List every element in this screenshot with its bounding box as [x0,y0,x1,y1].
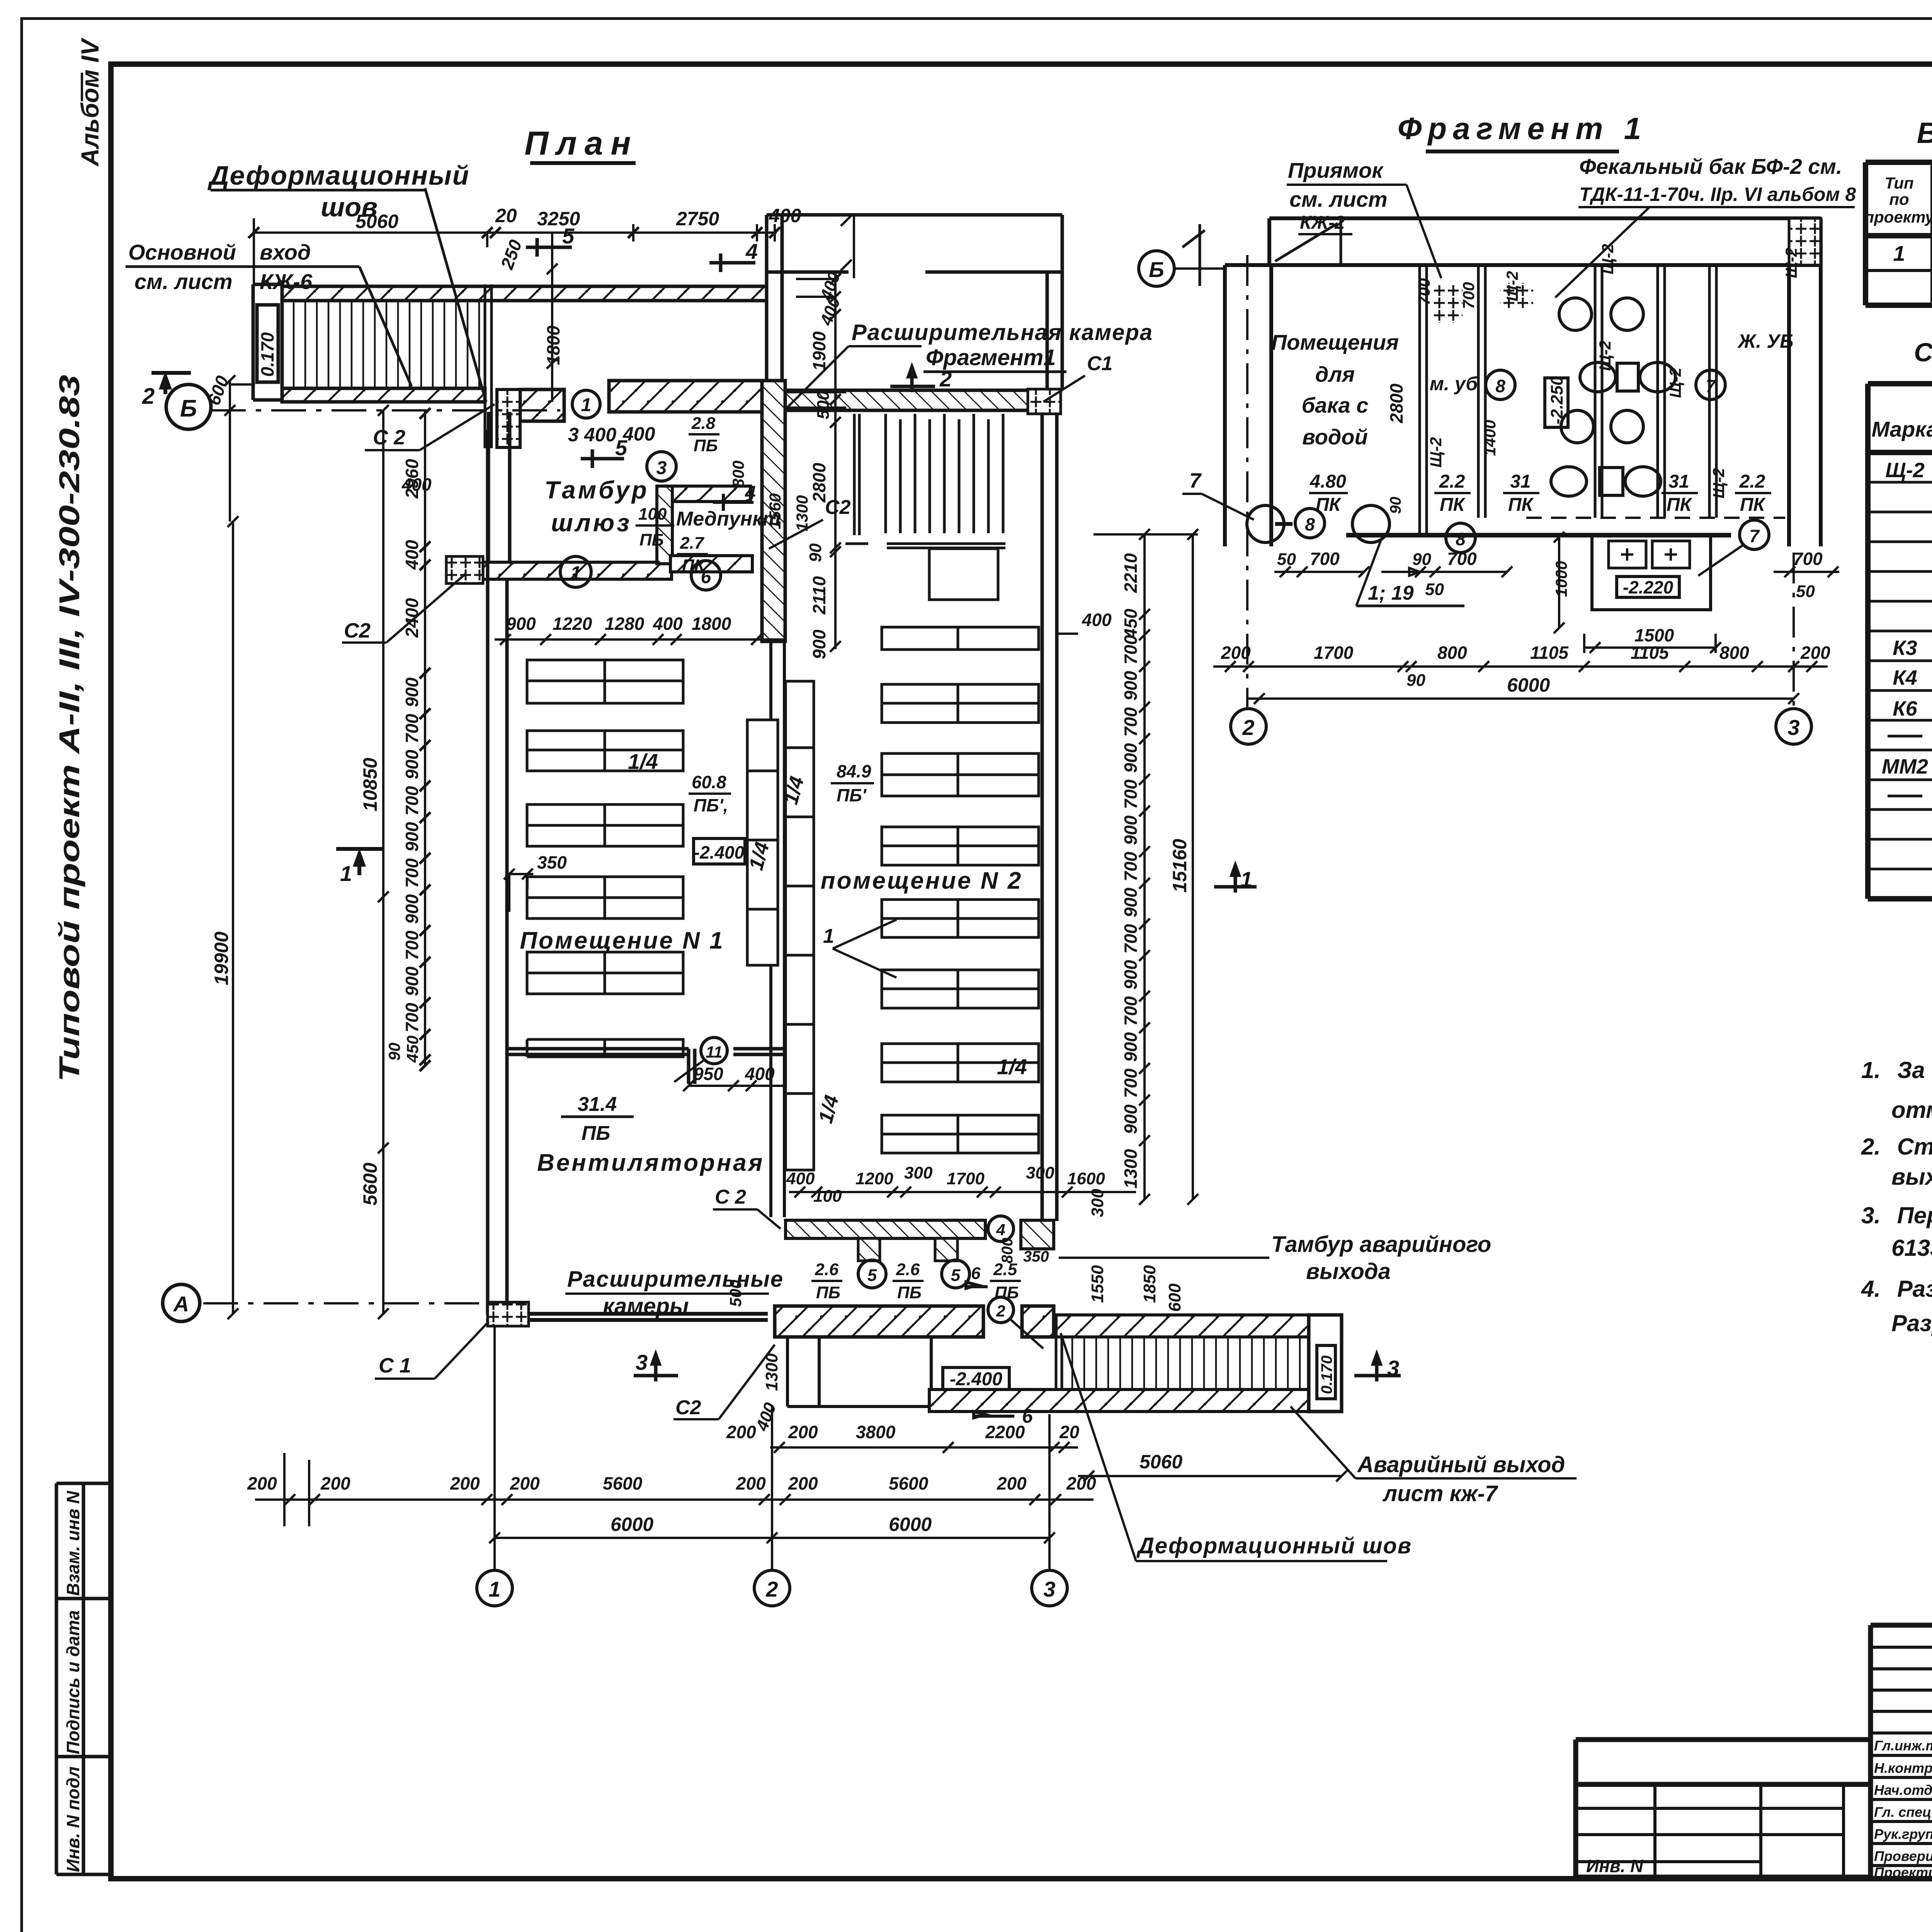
svg-text:7: 7 [1189,469,1202,492]
room2 top-right corner crosshatch C1 [1028,389,1061,414]
svg-text:900: 900 [402,822,422,852]
svg-text:1: 1 [1893,241,1905,265]
expansion chamber strip top [767,215,1062,389]
svg-text:Щ-2: Щ-2 [1503,271,1521,301]
right total chain 15160 [1187,529,1198,1205]
svg-text:Проверил: Проверил [1874,1848,1932,1864]
svg-text:900: 900 [1121,743,1141,773]
svg-text:450: 450 [403,1036,422,1063]
num circle 8 c [1446,523,1475,553]
svg-text:5060: 5060 [355,211,398,232]
svg-text:500: 500 [726,1280,745,1307]
svg-text:300: 300 [904,1163,933,1182]
dim 6 arrow [974,1412,1014,1418]
circle 3 [647,452,676,481]
svg-text:5600: 5600 [359,1163,381,1206]
bottom tambour partition returns [858,1238,880,1261]
svg-text:Альбом IV: Альбом IV [76,37,104,167]
svg-text:90: 90 [1412,550,1431,569]
svg-text:ПБ: ПБ [582,1122,610,1145]
section mark 2 left [151,373,191,394]
svg-text:1. За отм. 0.000 условно п: 1. За отм. 0.000 условно принята планиро… [1861,1057,1932,1083]
svg-text:3: 3 [656,458,667,478]
svg-text:700: 700 [402,1003,422,1032]
svg-text:1/4: 1/4 [628,749,658,774]
section mark 3 bottom [634,1354,678,1381]
svg-text:400: 400 [786,1169,815,1188]
svg-text:400: 400 [745,1064,775,1084]
fragment grid circle 2 [1231,709,1266,744]
svg-text:1550: 1550 [1088,1265,1107,1303]
priyamok notch in band [1275,218,1341,265]
svg-text:60.8: 60.8 [692,772,726,792]
spec table grid [1868,384,1932,899]
svg-text:м. уб: м. уб [1430,373,1478,395]
svg-text:450: 450 [1121,609,1141,639]
svg-text:1/4: 1/4 [997,1054,1027,1079]
PLAN ANNOTATIONS [126,160,1577,1606]
svg-text:ТДК-11-1-70ч. IIр. VI альбом 8: ТДК-11-1-70ч. IIр. VI альбом 8 [1579,184,1856,205]
svg-text:400: 400 [1082,610,1112,630]
svg-text:90: 90 [806,543,825,562]
slope arrow 1:19 [1381,568,1420,576]
LEFT MARGIN [53,37,111,1874]
svg-text:Марка: Марка [1872,417,1932,441]
svg-text:3: 3 [1387,1356,1399,1380]
fixture circle on axis [1247,505,1284,543]
svg-text:А: А [173,1292,189,1316]
svg-text:Разрезы 3-3÷6-6 см. лист А: Разрезы 3-3÷6-6 см. лист АС-6. [1891,1310,1932,1336]
svg-text:900: 900 [809,629,829,659]
grid circle 3 [1032,1570,1067,1606]
svg-text:700: 700 [1121,852,1141,881]
svg-text:5600: 5600 [603,1473,643,1493]
svg-text:800: 800 [1437,643,1467,663]
svg-text:2: 2 [142,384,155,409]
svg-text:1600: 1600 [1067,1169,1105,1188]
svg-text:800: 800 [729,461,747,488]
svg-text:Щ-2: Щ-2 [1885,459,1924,482]
svg-text:Типовой проект А-II, III, IV: Типовой проект А-II, III, IV-300-230.83 [53,375,85,1082]
svg-text:Тамбур аварийного: Тамбур аварийного [1271,1232,1491,1257]
circle 11 [701,1037,727,1064]
svg-text:Щ-2: Щ-2 [1599,244,1617,274]
svg-text:шлюз: шлюз [551,509,632,537]
svg-text:900: 900 [1121,1032,1141,1062]
svg-text:31: 31 [1510,471,1531,492]
fragment axis line 2 [1246,255,1248,709]
section mark 2 top [890,367,935,392]
level -2.220 [1617,577,1679,597]
svg-text:400: 400 [622,423,655,445]
svg-text:Щ-2: Щ-2 [1596,340,1614,371]
tambour top concrete wall [609,381,784,412]
svg-text:1300: 1300 [1121,1149,1141,1189]
grid circle 2 [754,1570,790,1606]
svg-text:3800: 3800 [856,1422,896,1442]
svg-text:2110: 2110 [809,576,829,615]
section mark 4 small [713,494,753,511]
svg-text:по: по [1889,190,1909,208]
svg-text:700: 700 [1121,924,1141,954]
svg-text:лист кж-7: лист кж-7 [1382,1481,1498,1506]
svg-text:ММ2: ММ2 [1882,755,1928,778]
svg-text:2200: 2200 [985,1422,1025,1442]
svg-text:4: 4 [996,1221,1005,1239]
svg-text:1300: 1300 [762,1353,781,1391]
svg-text:700: 700 [1415,278,1433,305]
svg-text:-2.400: -2.400 [694,842,745,862]
partition pilaster strip [747,720,778,965]
svg-text:Б: Б [1149,257,1164,282]
fragment right wall [1789,265,1821,546]
svg-text:водой: водой [1302,425,1368,449]
svg-text:20: 20 [495,205,517,226]
svg-text:Расширительные: Расширительные [567,1267,784,1292]
svg-text:1105: 1105 [1530,643,1569,663]
room2 top wall [785,390,1057,410]
svg-text:700: 700 [1121,635,1141,665]
svg-text:6000: 6000 [611,1514,653,1535]
circle 1 top [572,390,600,418]
svg-text:К6: К6 [1893,697,1917,720]
urinal row 2 [1600,468,1623,495]
svg-text:31: 31 [1668,471,1689,492]
svg-text:Тамбур: Тамбур [544,476,649,504]
emergency stair treads [1072,1337,1300,1389]
svg-text:1: 1 [340,861,352,886]
svg-text:Щ-2: Щ-2 [1666,367,1684,398]
speckle patch 1 [1434,285,1463,323]
svg-text:С1: С1 [1087,352,1112,375]
svg-text:7: 7 [1706,376,1716,396]
svg-text:Щ-2: Щ-2 [1427,437,1445,468]
fragment grid circle 3 [1776,709,1811,744]
partition inside room2 top [854,414,859,535]
svg-text:2.7: 2.7 [680,534,705,553]
svg-text:900: 900 [506,614,536,634]
svg-text:3: 3 [1043,1577,1055,1601]
stair mark 0.170 [257,305,278,382]
tambour left wall [488,412,510,564]
svg-text:3: 3 [636,1350,648,1374]
svg-text:200: 200 [1221,643,1251,663]
level mark -2.400 bottom [943,1367,1009,1389]
emergency stair top band [1056,1315,1309,1337]
stair treads [294,301,479,388]
svg-text:2: 2 [765,1577,778,1601]
svg-text:Ведомость оборудования: Ведомость оборудования [1917,117,1932,150]
svg-text:700: 700 [1447,549,1477,569]
svg-text:8: 8 [1495,376,1505,396]
svg-text:900: 900 [1121,671,1141,701]
svg-text:1000: 1000 [1552,561,1570,597]
medpunkt partition horizontal [672,486,750,502]
emergency stair mark 0.170 [1317,1345,1335,1399]
svg-text:1280: 1280 [605,614,645,634]
svg-text:Фекальный бак БФ-2 см.: Фекальный бак БФ-2 см. [1579,154,1842,179]
room2 top box [929,549,998,600]
axis B circle fragment [1139,251,1174,286]
svg-text:План: План [524,125,638,162]
left dim chain [424,410,426,1066]
svg-text:300: 300 [1088,1189,1107,1217]
svg-text:Вентиляторная: Вентиляторная [537,1150,764,1176]
wall break mark [1182,224,1205,286]
svg-text:ПБ: ПБ [897,1283,922,1302]
svg-text:200: 200 [726,1422,756,1442]
svg-text:2800: 2800 [809,463,829,503]
svg-text:50: 50 [1796,582,1815,601]
svg-text:5: 5 [562,224,575,248]
svg-text:Инв. N подл: Инв. N подл [63,1767,83,1872]
left chain 19900 [228,516,238,1319]
svg-text:900: 900 [402,894,422,924]
section mark 1 left [336,849,383,875]
svg-text:С 2: С 2 [373,426,405,449]
svg-text:2.8: 2.8 [691,414,716,433]
svg-text:3: 3 [1787,715,1799,740]
svg-text:900: 900 [402,677,422,707]
svg-text:1560: 1560 [766,493,784,529]
svg-text:1400: 1400 [1481,420,1499,456]
num circle 7 b [1740,520,1769,549]
svg-text:1: 1 [488,1577,500,1601]
svg-text:2400: 2400 [402,598,422,638]
main entrance stair bottom band [282,388,485,402]
section mark 4 top [709,253,755,272]
svg-text:700: 700 [1121,707,1141,737]
title block outer and grid [1871,1625,1932,1879]
svg-text:С 2: С 2 [715,1186,746,1208]
axis A circle [163,1284,200,1321]
svg-text:400: 400 [769,205,801,226]
svg-text:1500: 1500 [1634,625,1674,645]
svg-text:помещение N 2: помещение N 2 [821,867,1023,894]
section mark 5 top [526,238,572,257]
margin stamp boxes [56,1483,111,1874]
svg-text:Аварийный выход: Аварийный выход [1357,1452,1565,1477]
grid columns verticals [495,1325,1049,1571]
svg-text:Рук.груп: Рук.груп [1874,1826,1932,1842]
num circle 8 a [1295,509,1325,538]
svg-text:700: 700 [1310,549,1340,569]
svg-text:350: 350 [537,852,567,872]
tambour room labels [581,449,624,468]
svg-text:ПК: ПК [1667,495,1693,515]
partition P3 [1595,265,1602,518]
svg-text:Фрагмент 1: Фрагмент 1 [1398,111,1647,146]
svg-text:Ж. УБ: Ж. УБ [1737,330,1793,352]
svg-text:1: 1 [1240,867,1252,891]
svg-text:900: 900 [1121,888,1141,917]
svg-text:ПК: ПК [1740,495,1766,515]
svg-text:-2.400: -2.400 [950,1369,1002,1389]
svg-text:6: 6 [971,1264,981,1283]
svg-text:2.6: 2.6 [815,1260,839,1279]
level mark -2.400 mid [694,838,745,864]
level -2.250 [1545,378,1568,427]
fixture circle 2 [1352,505,1389,543]
svg-text:7: 7 [1749,526,1760,546]
svg-text:200: 200 [450,1473,480,1493]
PLAN [253,125,1342,1412]
svg-text:для: для [1315,362,1355,386]
svg-text:1200: 1200 [855,1169,893,1188]
svg-text:1900: 1900 [809,331,829,371]
svg-text:0.170: 0.170 [257,332,277,377]
svg-text:1800: 1800 [692,614,731,634]
medpunkt bottom wall pieces [670,556,752,572]
sig rows [1874,1732,1932,1880]
svg-text:400: 400 [653,614,683,634]
svg-text:Нач.отд.: Нач.отд. [1874,1782,1932,1798]
svg-text:Медпункт: Медпункт [676,508,781,530]
svg-text:Подпись и дата: Подпись и дата [63,1610,83,1754]
left chain 10850 5600 [378,405,389,1319]
svg-text:ПБ',: ПБ', [694,795,728,815]
svg-text:350: 350 [1023,1248,1049,1265]
central wall grid2 upper [762,381,785,641]
deformation joint at emergency stair [1056,1315,1062,1412]
svg-text:камеры: камеры [603,1294,689,1319]
central wall grid2 lower double line [771,641,784,1217]
svg-text:900: 900 [1121,815,1141,845]
room2 right wall [1042,414,1057,1221]
svg-text:0.170: 0.170 [1318,1355,1335,1394]
sill line [1346,533,1731,537]
svg-text:выхода: выхода [1306,1259,1391,1284]
svg-text:700: 700 [1793,549,1823,569]
aux table bottom-left [1576,1740,1871,1877]
svg-text:11: 11 [706,1043,723,1061]
bottom tambour bottom band [775,1306,983,1337]
svg-text:950: 950 [694,1064,723,1084]
svg-text:2800: 2800 [1386,383,1406,423]
svg-text:2750: 2750 [676,208,719,230]
svg-text:1700: 1700 [1314,643,1354,663]
left outer wall [488,430,507,1314]
circle 1 lower [560,556,591,587]
svg-text:900: 900 [1121,1104,1141,1134]
svg-text:Взам. инв N: Взам. инв N [63,1491,83,1596]
svg-text:8: 8 [1456,529,1466,549]
partition P4 [1658,265,1665,518]
fragment top wall band [1269,218,1821,265]
svg-text:200: 200 [997,1473,1027,1493]
svg-text:6000: 6000 [889,1514,932,1535]
svg-text:200: 200 [736,1473,766,1493]
svg-text:вых блоков.: вых блоков. [1891,1164,1932,1190]
grid circle 1 [477,1570,512,1606]
NOTES [1861,1057,1932,1336]
top dimension line [254,218,777,284]
deformation joint double line [485,284,492,448]
svg-text:Тип: Тип [1884,174,1913,192]
svg-text:Приямок: Приямок [1288,158,1384,182]
svg-text:1; 19: 1; 19 [1368,582,1414,604]
svg-text:600: 600 [1165,1283,1184,1312]
svg-text:500: 500 [814,391,833,419]
svg-text:1: 1 [581,395,592,415]
svg-text:4.80: 4.80 [1310,471,1346,492]
svg-text:ПК: ПК [1440,495,1466,515]
main entrance stair top band [282,286,767,301]
svg-text:Инв. N: Инв. N [1586,1856,1643,1876]
svg-text:200: 200 [1800,643,1830,663]
svg-text:4: 4 [745,239,758,264]
svg-text:1300: 1300 [793,495,811,531]
svg-text:84.9: 84.9 [837,761,871,781]
svg-text:1: 1 [823,925,834,947]
svg-text:К3: К3 [1893,636,1917,660]
svg-text:700: 700 [402,714,422,743]
svg-text:ПК: ПК [1508,495,1534,515]
trench [1592,537,1711,610]
svg-text:отметка земли.: отметка земли. [1891,1097,1932,1123]
TABLES [1864,117,1932,899]
svg-text:10850: 10850 [359,758,381,811]
svg-text:С 1: С 1 [379,1354,411,1377]
svg-text:900: 900 [1121,960,1141,990]
svg-text:см. лист: см. лист [134,269,233,294]
equipment table grid [1866,162,1932,305]
svg-text:2.6: 2.6 [896,1260,920,1279]
svg-text:400: 400 [401,474,432,495]
svg-text:50: 50 [1425,580,1444,599]
svg-text:5: 5 [867,1266,877,1285]
partition P2 [1478,265,1485,518]
emergency stair right cap [1309,1315,1342,1412]
partition pilaster strip right [786,681,814,1170]
svg-text:700: 700 [402,786,422,816]
svg-text:400: 400 [402,540,422,570]
svg-text:19900: 19900 [211,932,232,985]
svg-text:Помещения: Помещения [1271,330,1399,354]
section mark 1 right [1214,866,1257,893]
svg-text:90: 90 [1406,671,1425,690]
svg-text:3 400: 3 400 [568,424,616,446]
fragment left wall [1225,265,1271,546]
svg-text:Б: Б [180,395,197,422]
svg-text:700: 700 [402,930,422,960]
svg-text:3. Перегородки толщиной 90мм: 3. Перегородки толщиной 90мм из бетонных… [1861,1202,1932,1228]
svg-text:90: 90 [385,1043,403,1061]
svg-text:900: 900 [402,750,422,779]
svg-text:31.4: 31.4 [578,1093,617,1116]
svg-text:2: 2 [996,1302,1005,1320]
svg-text:2. Стены запроектированы из: 2. Стены запроектированы из сборных бето… [1861,1134,1932,1160]
top band right crosshatch [1789,218,1821,265]
svg-text:Деформационный: Деформационный [207,160,469,190]
svg-text:см. лист: см. лист [1289,187,1388,211]
svg-text:2210: 2210 [1121,553,1141,593]
svg-text:С2: С2 [344,619,371,642]
FRAGMENT [1139,111,1856,744]
vertical dim 1000 line [1554,532,1565,633]
svg-text:1105: 1105 [1631,643,1669,663]
svg-text:Гл.инж.т: Гл.инж.т [1874,1738,1932,1753]
svg-text:2.2: 2.2 [1439,471,1465,492]
svg-text:800: 800 [999,1238,1016,1264]
svg-text:20: 20 [1059,1422,1080,1442]
svg-text:100: 100 [813,1187,842,1206]
medpunkt partition vertical [657,486,672,564]
ventilation room top wall [509,1049,784,1084]
svg-text:200: 200 [320,1473,350,1493]
svg-text:700: 700 [1121,1068,1141,1098]
urinal row 1 [1617,363,1638,391]
